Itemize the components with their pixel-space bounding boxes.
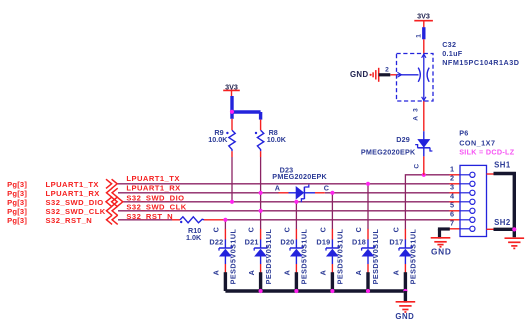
svg-text:2: 2 <box>450 174 454 183</box>
svg-text:7: 7 <box>450 219 454 228</box>
svg-text:C: C <box>247 227 256 232</box>
svg-text:GND: GND <box>350 70 369 79</box>
svg-text:D17: D17 <box>389 237 403 246</box>
svg-text:Pg[3]: Pg[3] <box>7 189 27 198</box>
svg-text:S32_RST_N: S32_RST_N <box>46 216 93 225</box>
svg-text:D22: D22 <box>209 237 223 246</box>
svg-text:C: C <box>354 227 363 232</box>
svg-text:D21: D21 <box>245 237 259 246</box>
svg-text:10.0K: 10.0K <box>208 135 228 144</box>
svg-text:6: 6 <box>450 210 454 219</box>
svg-text:C: C <box>414 164 421 169</box>
svg-text:Pg[3]: Pg[3] <box>7 198 27 207</box>
svg-text:C32: C32 <box>442 40 456 49</box>
svg-text:S32_SWD_CLK: S32_SWD_CLK <box>126 203 186 212</box>
svg-text:1: 1 <box>450 165 454 174</box>
svg-text:PESD5V0S1UL: PESD5V0S1UL <box>229 229 238 285</box>
svg-text:5: 5 <box>450 201 454 210</box>
svg-text:GND: GND <box>431 246 452 256</box>
svg-text:C: C <box>391 227 400 232</box>
svg-text:PESD5V0S1UL: PESD5V0S1UL <box>409 229 418 285</box>
svg-text:1: 1 <box>416 34 423 38</box>
svg-text:2: 2 <box>385 66 389 73</box>
svg-text:LPUART1_TX: LPUART1_TX <box>46 180 99 189</box>
svg-text:A: A <box>212 270 221 275</box>
svg-text:A: A <box>392 270 401 275</box>
svg-text:3: 3 <box>450 183 454 192</box>
svg-text:PESD5V0S1UL: PESD5V0S1UL <box>336 229 345 285</box>
svg-text:S32_SWD_DIO: S32_SWD_DIO <box>46 198 104 207</box>
svg-text:C: C <box>282 227 291 232</box>
svg-text:D29: D29 <box>396 135 410 144</box>
svg-text:LPUART1_TX: LPUART1_TX <box>126 174 179 183</box>
svg-text:PESD5V0S1UL: PESD5V0S1UL <box>264 229 273 285</box>
svg-text:A: A <box>412 116 419 121</box>
svg-text:A: A <box>275 183 280 192</box>
svg-text:Pg[3]: Pg[3] <box>7 180 27 189</box>
svg-text:D18: D18 <box>352 237 366 246</box>
svg-text:PESD5V0S1UL: PESD5V0S1UL <box>300 229 309 285</box>
svg-text:A: A <box>354 270 363 275</box>
svg-text:PESD5V0S1UL: PESD5V0S1UL <box>371 229 380 285</box>
svg-text:10.0K: 10.0K <box>267 135 287 144</box>
svg-text:S32_SWD_CLK: S32_SWD_CLK <box>46 207 106 216</box>
svg-text:SILK = DCD-LZ: SILK = DCD-LZ <box>459 148 515 157</box>
svg-text:3: 3 <box>412 108 419 112</box>
svg-text:LPUART1_RX: LPUART1_RX <box>126 184 180 193</box>
svg-text:D19: D19 <box>316 237 330 246</box>
svg-text:S32_RST_N: S32_RST_N <box>126 212 173 221</box>
svg-text:A: A <box>247 270 256 275</box>
svg-text:0.1uF: 0.1uF <box>442 49 463 58</box>
svg-text:Pg[3]: Pg[3] <box>7 216 27 225</box>
svg-text:SH2: SH2 <box>494 218 511 227</box>
svg-text:PMEG2020EPK: PMEG2020EPK <box>272 172 327 181</box>
svg-text:A: A <box>319 270 328 275</box>
svg-text:C: C <box>324 183 329 192</box>
svg-text:CON_1X7: CON_1X7 <box>459 138 495 147</box>
svg-text:S32_SWD_DIO: S32_SWD_DIO <box>126 193 184 202</box>
svg-text:P6: P6 <box>459 129 468 138</box>
svg-text:GND: GND <box>395 312 414 321</box>
svg-text:A: A <box>283 270 292 275</box>
svg-text:1.0K: 1.0K <box>186 233 202 242</box>
svg-text:NFM15PC104R1A3D: NFM15PC104R1A3D <box>442 58 519 67</box>
svg-text:C: C <box>318 227 327 232</box>
svg-text:SH1: SH1 <box>494 161 511 170</box>
svg-text:PMEG2020EPK: PMEG2020EPK <box>361 148 416 157</box>
svg-text:D20: D20 <box>280 237 294 246</box>
svg-text:C: C <box>211 227 220 232</box>
svg-text:3V3: 3V3 <box>417 11 430 20</box>
svg-text:Pg[3]: Pg[3] <box>7 207 27 216</box>
svg-text:LPUART1_RX: LPUART1_RX <box>46 189 100 198</box>
